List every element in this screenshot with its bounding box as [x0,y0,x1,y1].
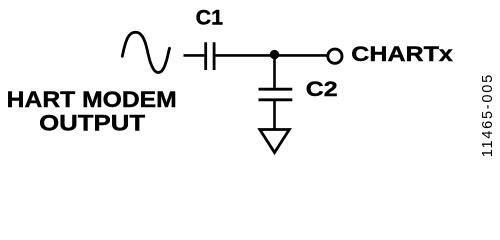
wire from node down to C2 [273,55,276,88]
svg-text:HART MODEM: HART MODEM [7,87,177,112]
ground [260,130,290,153]
wire from source to C1 [184,54,205,57]
svg-text:CHARTx: CHARTx [351,42,453,66]
svg-text:C2: C2 [306,77,338,101]
terminal CHARTx (open circle) [328,49,342,63]
junction node dot [270,50,279,59]
wire from C2 down to ground [273,101,276,129]
capacitor C1 plates [206,42,214,70]
wire from C1 to terminal [216,54,327,57]
svg-text:C1: C1 [196,6,224,30]
svg-text:OUTPUT: OUTPUT [39,110,146,135]
svg-text:11465-005: 11465-005 [480,75,496,158]
AC source V1 (sine symbol) [122,32,169,72]
capacitor C2 plates [259,89,293,100]
